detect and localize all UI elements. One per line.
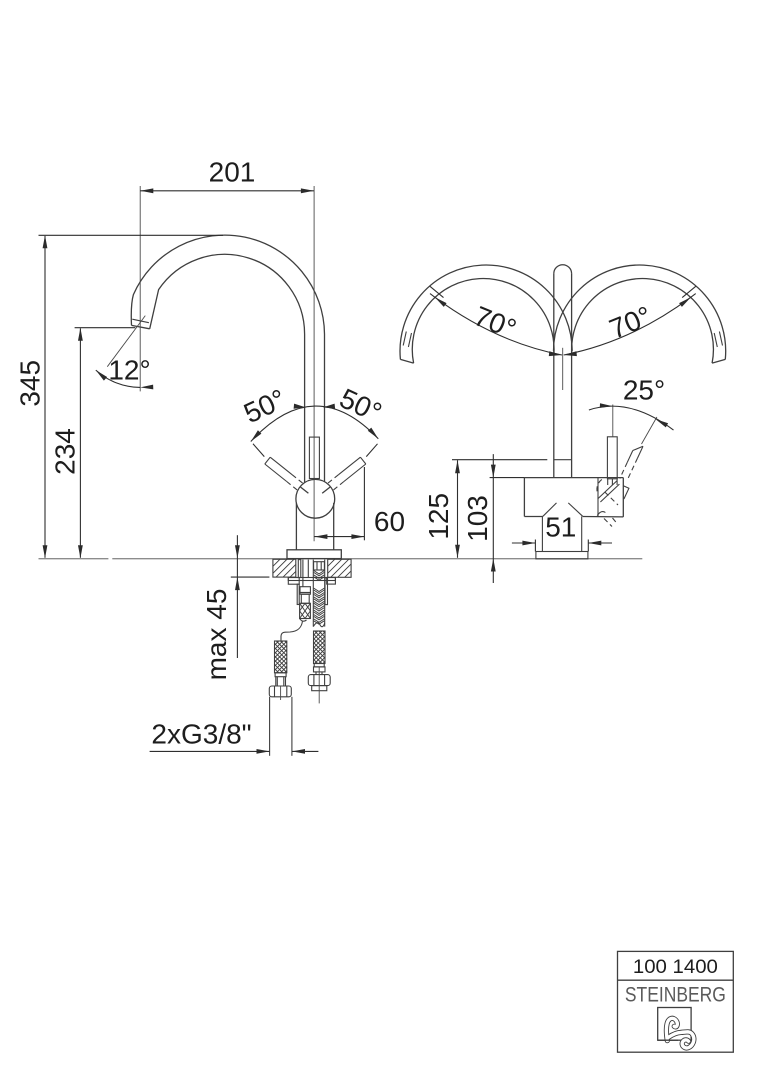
25 radial vertical [612, 405, 614, 437]
label 345 [14, 360, 45, 407]
right handle lower edge hidden [333, 482, 344, 491]
ball joint circle [296, 479, 335, 518]
max45 dimension line [236, 535, 238, 658]
threaded shank outline [313, 560, 324, 627]
left hose centerline [280, 686, 282, 700]
label 51 [545, 512, 576, 543]
label 125 [423, 493, 454, 540]
125 extension line [452, 459, 547, 461]
234 top extension line [75, 327, 136, 329]
70 right tick [682, 286, 696, 297]
left handle lower edge hidden [287, 482, 298, 491]
svg-text:345: 345 [14, 360, 45, 407]
svg-text:2xG3/8": 2xG3/8" [151, 719, 251, 750]
left stud tube lines [303, 560, 308, 587]
svg-text:103: 103 [462, 495, 493, 542]
right handle cap [360, 457, 365, 464]
right hose braided section [314, 631, 326, 664]
spout outer contour with gooseneck arc and right pipe edge [131, 235, 324, 482]
socket diagonal 1 [598, 481, 617, 499]
arrow 50 at pipe right [323, 404, 335, 409]
swivel band left inner arc [412, 278, 554, 363]
arrow max45 bottom [235, 577, 240, 590]
345 top extension line [39, 234, 224, 236]
pipe swivel joint line [554, 459, 572, 461]
arrow 234 bottom [78, 545, 83, 558]
counter slab left hatched [273, 559, 296, 577]
swivel band left outer arc [400, 265, 572, 359]
label 12deg [108, 354, 150, 385]
body bottom right [583, 516, 624, 518]
socket dashed arc [597, 479, 602, 491]
right spacer tab [325, 578, 328, 605]
arrow 345 bottom [43, 545, 48, 558]
washer left block [288, 578, 299, 585]
swivel band left end cap [400, 359, 413, 363]
left handle upper edge solid [270, 457, 292, 475]
left stud rounded tip [300, 619, 307, 622]
side base plate [536, 552, 588, 559]
arrow 12deg left [96, 370, 107, 381]
svg-text:234: 234 [49, 428, 80, 475]
spout outlet end face [132, 325, 150, 328]
dimension 201 line [140, 190, 314, 192]
body left edge side [523, 478, 525, 517]
side spout pipe left edge [553, 274, 555, 478]
left threaded stud dark strip [298, 560, 301, 578]
arrow G38 left [257, 749, 270, 754]
arrow 70 left outer [435, 297, 447, 307]
label 201 [209, 157, 256, 188]
arrow 51 left [522, 541, 535, 546]
socket right flap [623, 486, 629, 499]
25 dimension arc [589, 406, 674, 430]
svg-text:25°: 25° [623, 375, 665, 406]
label 50 right [335, 382, 386, 428]
arrow 103 bottom [491, 559, 496, 572]
label 103 [462, 495, 493, 542]
socket dashed diagonal [605, 492, 618, 505]
dimension 125 line [457, 460, 459, 558]
left handle cap [265, 457, 270, 464]
label 60 [374, 506, 405, 537]
side spout pipe rounded cap [554, 265, 572, 274]
12 deg slanted reference line [107, 316, 145, 367]
12 deg dimension arc [96, 370, 140, 387]
arrow 25 right [656, 419, 669, 427]
51 extension left [534, 540, 536, 552]
arrow G38 right [292, 749, 305, 754]
arrow 125 bottom [455, 545, 460, 558]
body right edge side [622, 478, 624, 517]
left handle stub at ball [301, 487, 309, 493]
body V-joint left [543, 503, 557, 516]
counter slab right hatched [328, 559, 351, 577]
51 extension right [587, 540, 589, 552]
50 deg dimension arc [251, 406, 378, 441]
25 radial slanted [642, 417, 657, 444]
arrow 60 right [351, 534, 364, 539]
2xG3/8 dim leader right [292, 750, 318, 752]
arrow 50 outer-right [368, 428, 379, 439]
svg-text:STEINBERG: STEINBERG [625, 983, 726, 1007]
logo square [658, 1008, 691, 1041]
tilted lever edge hidden 2 [620, 462, 628, 478]
swivel band right outlet ticks [714, 332, 722, 348]
logo swirl [666, 1018, 693, 1048]
socket dashed below 1 [604, 519, 612, 527]
left hose neck [276, 677, 286, 686]
right hose block [314, 667, 326, 672]
arrow 51 right [588, 541, 601, 546]
left handle upper edge hidden [292, 475, 305, 485]
vertical handle lever [309, 437, 319, 478]
right handle upper edge hidden [326, 475, 339, 485]
escutcheon base plate [287, 550, 341, 559]
body left edge [295, 503, 297, 549]
side vertical lever [607, 437, 617, 479]
spout inner contour with gooseneck arc and left pipe edge [150, 254, 305, 482]
left handle lower edge solid [265, 464, 287, 482]
stem left line [541, 516, 543, 551]
title block box [618, 951, 734, 1052]
dimension 103 line [492, 454, 494, 583]
label 70 left [470, 300, 521, 345]
body bottom left [524, 516, 543, 518]
body right edge [333, 503, 335, 550]
arrow 70 left center [549, 351, 562, 356]
label 234 [49, 428, 80, 475]
socket bottom arc [597, 512, 605, 516]
70 right dimension arc [564, 294, 696, 355]
left stud knurled section [300, 603, 311, 618]
right handle upper edge solid [339, 457, 361, 475]
max45 extension line [231, 576, 270, 578]
tilted lever edge solid 2 [627, 451, 633, 463]
mounting washer bar [288, 578, 335, 581]
arrow 234 top [78, 328, 83, 341]
label max45 [201, 589, 232, 681]
swivel band right inner arc [572, 278, 714, 363]
arrow 50 at pipe left [294, 404, 306, 409]
arrow 12deg right [140, 385, 153, 390]
swivel band left outlet ticks [403, 332, 411, 348]
right hose nut [308, 675, 330, 686]
arrow 125 top [455, 460, 460, 473]
arrow max45 top [235, 545, 240, 558]
shank top nut [314, 562, 325, 570]
lever guide lines [608, 478, 617, 485]
2xG3/8 dim leader left [150, 750, 270, 752]
arrow 60 left [314, 534, 327, 539]
103 extension line [490, 477, 525, 479]
washer right block [327, 578, 336, 585]
arrow 50 outer-left [251, 430, 262, 441]
arrow 70 right outer [679, 297, 691, 307]
svg-text:100 1400: 100 1400 [633, 957, 718, 978]
right hose neck [316, 672, 322, 675]
dimension 345 line [44, 236, 46, 558]
socket diagonal 2 [600, 484, 619, 502]
spout aerator line [132, 319, 149, 323]
left hose ferrule [275, 673, 286, 677]
tilted lever edge hidden 1 [628, 458, 638, 478]
left stud thin rod [297, 584, 299, 604]
201 left extension line down to outlet [139, 186, 141, 391]
dimension 234 line [79, 328, 81, 557]
counter top line main segment [112, 558, 642, 560]
right hose ferrule [314, 664, 324, 667]
left hose nut [269, 686, 291, 697]
svg-text:60: 60 [374, 506, 405, 537]
left stud sleeve [301, 594, 309, 603]
label 70 right [605, 300, 656, 345]
51 dim line left [512, 542, 536, 544]
50 left radial stub [253, 444, 264, 457]
arrow 201 right [301, 188, 314, 193]
stem right line [581, 516, 583, 551]
counter top line left segment [39, 558, 109, 560]
swivel band right outer arc [554, 265, 726, 359]
body V-joint right [568, 503, 582, 516]
right handle lower edge solid [344, 464, 366, 482]
faucet centerline / 201 right extension [313, 186, 315, 541]
socket dashed below 2 [613, 518, 618, 524]
svg-text:201: 201 [209, 157, 256, 188]
title number 100 1400 [633, 957, 718, 978]
svg-text:12°: 12° [108, 354, 150, 385]
70 left tick [430, 286, 444, 297]
arrow 345 top [43, 235, 48, 248]
right hose tube [312, 686, 327, 691]
right hose centerline [318, 667, 320, 703]
swivel band right end cap [712, 359, 725, 363]
arrow 103 top [491, 465, 496, 478]
arrow 201 left [140, 188, 153, 193]
title STEINBERG [625, 983, 726, 1007]
right handle stub at ball [322, 487, 330, 493]
50 right radial stub [366, 444, 377, 457]
arrow 25 left [600, 403, 613, 408]
left hose braided section [275, 641, 287, 673]
side spout pipe right edge [571, 274, 573, 478]
dimension 60 line [314, 536, 364, 538]
logo square bottom edge redraw [658, 1039, 678, 1041]
arrow 70 right center [564, 351, 577, 356]
title block divider [618, 979, 734, 981]
70 center tick [562, 348, 564, 390]
left hose G3/8 tube lines [270, 697, 292, 756]
svg-text:125: 125 [423, 493, 454, 540]
body inner vertical [597, 478, 599, 517]
label 50 left [239, 383, 290, 429]
hose S-bend [281, 621, 303, 641]
70 left dimension arc [430, 294, 562, 355]
shank thread pattern [314, 571, 325, 625]
svg-text:51: 51 [545, 512, 576, 543]
tilted lever edge solid 1 [638, 446, 644, 458]
label 25 [623, 375, 665, 406]
tilted lever cap [633, 446, 643, 450]
label 2xG3/8 [151, 719, 251, 750]
51 dim line right [588, 542, 612, 544]
svg-text:max 45: max 45 [201, 589, 232, 681]
left stud nut [300, 587, 310, 595]
body top line [524, 477, 623, 479]
60 extension line at handle tip [363, 467, 365, 540]
